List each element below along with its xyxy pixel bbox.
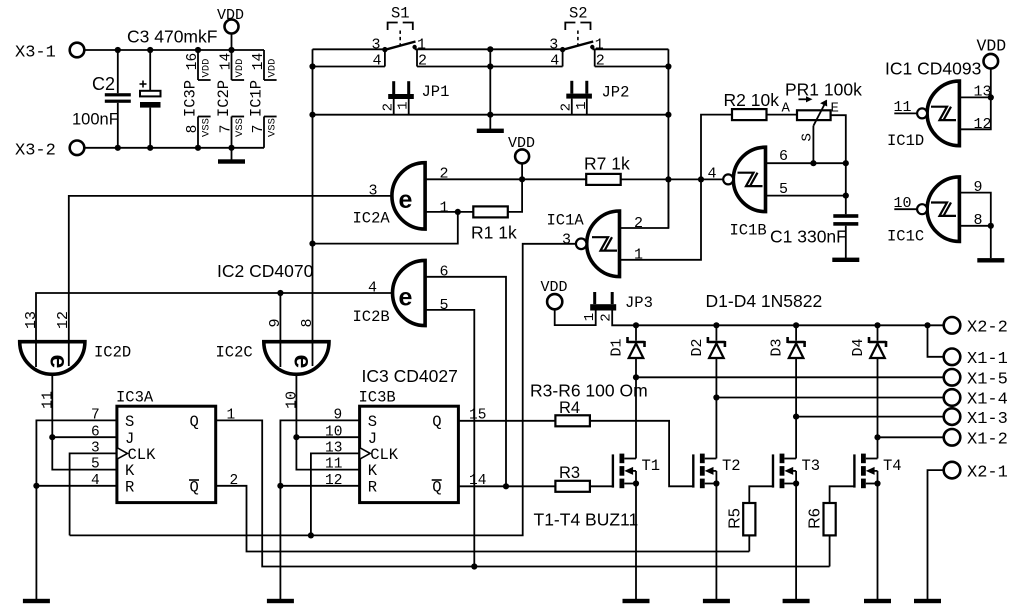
- svg-text:1: 1: [582, 313, 598, 321]
- wire IC2B pin5 down to IC3A Q row: [425, 310, 474, 567]
- wire JP rail y=114.7: [313, 114, 669, 116]
- svg-text:E: E: [831, 101, 839, 117]
- svg-text:1: 1: [634, 247, 643, 264]
- transistor T2: [693, 454, 740, 489]
- trimmer PR1: [782, 80, 863, 142]
- svg-text:11: 11: [325, 457, 342, 473]
- svg-text:IC3 CD4027: IC3 CD4027: [362, 366, 458, 386]
- svg-text:X1-5: X1-5: [967, 371, 1008, 390]
- wire R7 to IC1B pin4: [621, 178, 724, 180]
- svg-text:13: 13: [23, 311, 40, 329]
- svg-text:11: 11: [39, 391, 56, 409]
- svg-text:2: 2: [380, 103, 396, 111]
- resistor R7: [584, 154, 630, 185]
- node dots section E: [988, 94, 994, 229]
- svg-text:R: R: [368, 478, 377, 496]
- connector X2-1: [944, 462, 1008, 482]
- svg-text:R: R: [125, 478, 134, 496]
- svg-text:C2: C2: [92, 74, 115, 94]
- svg-text:IC2A: IC2A: [353, 210, 391, 228]
- svg-text:S1: S1: [391, 5, 410, 23]
- svg-text:5: 5: [440, 297, 449, 314]
- diode D2: [689, 325, 725, 458]
- wire X1-2 row from D4: [878, 436, 945, 438]
- svg-text:R6: R6: [807, 508, 824, 529]
- svg-text:X2-2: X2-2: [967, 319, 1008, 338]
- IC3P power pins: [182, 50, 213, 148]
- svg-text:C1 330nF: C1 330nF: [770, 227, 847, 247]
- wire IC3A Q pin1 to R6 row: [216, 420, 830, 566]
- svg-text:R1 1k: R1 1k: [471, 223, 517, 243]
- svg-text:16: 16: [185, 53, 201, 70]
- node dots top-left rails: [115, 47, 235, 151]
- nand gate IC1D (schmitt): [887, 81, 992, 150]
- svg-text:T1-T4 BUZ11: T1-T4 BUZ11: [534, 510, 639, 530]
- wire IC3B Q- pin14 to R3 to T1 gate: [458, 485, 555, 487]
- svg-text:3: 3: [91, 441, 100, 457]
- jumper JP3: [582, 292, 653, 322]
- svg-text:1: 1: [574, 101, 590, 109]
- wire IC2C pin9 riser: [279, 293, 281, 342]
- svg-text:IC2P: IC2P: [215, 80, 233, 117]
- svg-text:VSS: VSS: [234, 118, 246, 137]
- svg-text:1: 1: [417, 37, 426, 54]
- node dots diode rail: [633, 322, 931, 440]
- wire IC2D pin11 output to IC3A J/K: [52, 374, 117, 469]
- ground below C1: [832, 258, 859, 262]
- power VDD terminal top-left: [217, 7, 244, 50]
- wire T1 source to ground: [635, 484, 637, 600]
- nand gate IC1C (schmitt): [887, 177, 983, 246]
- svg-text:JP1: JP1: [422, 83, 450, 101]
- connector X1-1: [944, 349, 1008, 370]
- xor gate IC2B: [353, 260, 449, 326]
- svg-text:X1-3: X1-3: [967, 410, 1008, 429]
- svg-text:Q: Q: [432, 478, 441, 496]
- connector X2-2: [944, 317, 1008, 338]
- svg-text:JP3: JP3: [625, 294, 653, 312]
- wire T4 source to ground: [877, 484, 879, 600]
- wire R2 left to pin4 bus: [701, 115, 732, 180]
- wire R1 to VDD junction: [508, 179, 522, 212]
- node dots section D: [665, 160, 849, 199]
- wire IC3B J row: [296, 436, 359, 438]
- power VDD right: [977, 37, 1007, 98]
- resistor R2: [724, 90, 780, 120]
- svg-text:R7 1k: R7 1k: [584, 154, 630, 174]
- svg-text:X2-1: X2-1: [967, 463, 1008, 482]
- svg-text:X3-2: X3-2: [15, 142, 56, 161]
- svg-text:R3: R3: [559, 464, 580, 482]
- svg-text:7: 7: [218, 125, 234, 134]
- connector X3-1: [15, 43, 84, 63]
- wire IC1D pin13/12 to VDD: [959, 96, 990, 98]
- svg-text:8: 8: [185, 125, 201, 134]
- wire X2-1 to ground: [928, 470, 945, 599]
- wire IC3A Q- pin2 to R5 row: [216, 486, 750, 552]
- transistor T4: [854, 454, 901, 489]
- svg-text:e: e: [399, 284, 413, 312]
- power VDD above R7: [508, 135, 535, 179]
- xor gate IC2C (rotated, facing down): [216, 318, 330, 409]
- svg-text:X3-1: X3-1: [15, 44, 56, 63]
- wire R6 top to T4 gate: [830, 486, 855, 503]
- svg-text:IC1A: IC1A: [547, 212, 585, 230]
- svg-text:6: 6: [440, 264, 449, 281]
- connector X1-2: [944, 429, 1008, 450]
- svg-text:D4: D4: [850, 338, 867, 356]
- node dots section C: [277, 176, 525, 296]
- svg-text:2: 2: [418, 53, 427, 70]
- svg-text:JP2: JP2: [602, 84, 630, 102]
- svg-text:14: 14: [469, 473, 486, 489]
- capacitor C1: [770, 214, 858, 258]
- svg-text:D3: D3: [768, 338, 785, 356]
- ground below X2-1: [914, 599, 941, 603]
- svg-text:VDD: VDD: [201, 59, 213, 78]
- svg-text:6: 6: [91, 424, 100, 440]
- svg-text:8: 8: [299, 318, 316, 327]
- svg-text:3: 3: [562, 232, 571, 249]
- svg-text:5: 5: [91, 457, 100, 473]
- jumper JP2: [558, 81, 629, 115]
- svg-text:4: 4: [373, 53, 382, 70]
- wire IC2A pin1 feedback to S1 bus: [313, 212, 458, 244]
- svg-text:C3 470mkF: C3 470mkF: [127, 27, 217, 47]
- svg-text:4: 4: [708, 166, 717, 183]
- wire T3 source to ground: [795, 484, 797, 600]
- svg-text:VDD: VDD: [267, 59, 279, 78]
- svg-text:4: 4: [368, 280, 377, 297]
- wire IC2B pin4 row to IC2D pin13: [36, 293, 393, 342]
- wire PR1 wiper to pin6 row: [812, 126, 814, 163]
- wire R2 to PR1: [767, 114, 798, 116]
- wire IC1B pin5 row: [766, 195, 846, 197]
- svg-text:IC1B: IC1B: [730, 222, 767, 240]
- transistor T1: [613, 454, 660, 489]
- svg-text:S: S: [125, 413, 134, 431]
- svg-text:T1: T1: [642, 457, 661, 475]
- svg-text:2: 2: [440, 166, 449, 183]
- svg-text:T2: T2: [722, 457, 741, 475]
- svg-text:7: 7: [251, 125, 267, 134]
- power VDD for JP3: [541, 279, 568, 309]
- wire IC3B S pin9: [280, 420, 359, 485]
- svg-text:12: 12: [974, 116, 992, 133]
- svg-text:3: 3: [372, 37, 381, 54]
- svg-text:10: 10: [325, 424, 342, 440]
- ground below mid bus: [477, 129, 504, 133]
- svg-text:R3-R6 100 Om: R3-R6 100 Om: [530, 381, 648, 401]
- jumper JP1: [380, 81, 449, 115]
- wire R5 bottom to Q- row: [748, 535, 750, 551]
- wire IC1C pin10 stub: [894, 208, 917, 210]
- wire JP3 pin2 to X2-2 rail: [612, 311, 944, 326]
- resistor R4: [555, 399, 590, 426]
- svg-text:10: 10: [283, 391, 300, 409]
- connector X3-2: [15, 141, 84, 161]
- svg-text:VDD: VDD: [234, 59, 246, 78]
- wire X1-4 row from D2: [716, 397, 944, 399]
- ground below IC3B S/R: [267, 599, 294, 603]
- diode D4: [850, 325, 886, 458]
- wire IC3A CLK riser: [70, 453, 117, 535]
- wire T2 source to ground: [715, 484, 717, 600]
- nand gate IC1A (schmitt): [547, 211, 644, 277]
- nand gate IC1B (schmitt): [708, 147, 789, 239]
- ground below IC1C: [977, 258, 1004, 262]
- svg-text:15: 15: [469, 408, 486, 424]
- wire bottom rail VSS: [85, 147, 265, 149]
- svg-text:IC1C: IC1C: [887, 228, 924, 246]
- wire R6 bottom to Q row: [829, 535, 831, 566]
- transistor T3: [773, 454, 820, 489]
- wire IC2A pin1 row: [425, 211, 474, 213]
- svg-text:T3: T3: [802, 457, 821, 475]
- wire VDD to JP3 pin1: [555, 309, 596, 325]
- resistor R5: [726, 503, 755, 535]
- wire IC1A pin1 up to R7 row: [620, 179, 702, 259]
- wire IC3B Q pin15 to R4 to T2 gate: [458, 420, 555, 422]
- capacitor C3 (electrolytic): [127, 27, 217, 148]
- svg-text:S2: S2: [569, 5, 588, 23]
- svg-text:9: 9: [267, 318, 284, 327]
- wire IC2C pin10 output to IC3B J/K: [296, 374, 359, 469]
- wire IC1A pin2 up to R7 row: [620, 179, 669, 228]
- svg-text:1: 1: [440, 199, 449, 216]
- wire IC1D pin11 stub: [894, 112, 917, 114]
- wire IC2B pin6 down to IC3B pin14 row: [425, 277, 506, 487]
- svg-text:Q: Q: [190, 478, 199, 496]
- svg-text:2: 2: [596, 53, 605, 70]
- svg-text:IC3P: IC3P: [182, 80, 200, 117]
- svg-text:PR1 100k: PR1 100k: [785, 80, 862, 100]
- svg-text:Q: Q: [190, 413, 199, 431]
- wire lower rail segments y=66.5: [313, 66, 385, 68]
- ground below IC2P: [218, 148, 245, 164]
- svg-text:2: 2: [634, 215, 643, 232]
- svg-text:D1-D4 1N5822: D1-D4 1N5822: [706, 291, 823, 311]
- svg-text:VSS: VSS: [267, 118, 279, 137]
- wire X1-5 row from D1: [636, 376, 944, 378]
- node dots section H: [33, 434, 509, 570]
- svg-text:T4: T4: [883, 457, 902, 475]
- flip-flop IC3A: [91, 389, 238, 503]
- wire upper rail segments y=49.3: [313, 48, 385, 50]
- svg-text:IC2D: IC2D: [94, 344, 131, 362]
- wire S1 left bus down to IC2C pin8: [312, 49, 314, 341]
- svg-text:IC3A: IC3A: [116, 389, 154, 407]
- svg-text:X1-4: X1-4: [967, 391, 1008, 410]
- diode D3: [768, 325, 804, 458]
- wire IC2A pin3 to IC2D pin12: [69, 196, 392, 342]
- svg-text:VSS: VSS: [201, 118, 213, 137]
- svg-text:Q: Q: [432, 413, 441, 431]
- connector X1-4: [944, 389, 1008, 410]
- wire PR1 right down to C1: [831, 115, 846, 214]
- connector X1-5: [944, 369, 1008, 390]
- svg-text:R5: R5: [726, 508, 743, 529]
- resistor R1: [471, 206, 517, 242]
- svg-text:100nF: 100nF: [72, 111, 119, 129]
- ground below IC3A S/R: [23, 599, 50, 603]
- switch S2: [549, 5, 605, 70]
- svg-text:1: 1: [396, 101, 412, 109]
- wire IC1C pin9/8 to ground: [959, 193, 990, 259]
- svg-text:X1-2: X1-2: [967, 431, 1008, 450]
- svg-text:X1-1: X1-1: [967, 350, 1008, 369]
- wire IC3A R pin4: [36, 486, 117, 599]
- IC2P power pins: [215, 50, 246, 148]
- wire right bus x=668.4 (S2 right to IC1A pin2 row): [667, 49, 669, 228]
- svg-text:D2: D2: [689, 338, 706, 356]
- wire IC1B pin6 row: [766, 162, 846, 164]
- svg-text:e: e: [399, 186, 413, 214]
- connector X1-3: [944, 408, 1008, 428]
- wire IC3A J row: [52, 436, 117, 438]
- wire top rail VDD: [85, 49, 265, 51]
- svg-text:2: 2: [558, 103, 574, 111]
- wire IC3B R pin12: [280, 486, 359, 599]
- svg-text:R2 10k: R2 10k: [724, 90, 780, 110]
- svg-text:IC2B: IC2B: [353, 308, 390, 326]
- flip-flop IC3B: [325, 389, 486, 503]
- svg-text:4: 4: [550, 53, 559, 70]
- wire IC3B CLK pin13: [311, 453, 360, 535]
- wire X1-1 branch: [928, 325, 945, 357]
- svg-text:3: 3: [369, 183, 378, 200]
- svg-text:14: 14: [218, 53, 234, 70]
- xor gate IC2A: [353, 163, 449, 229]
- wire IC2A pin2 row to VDD junction: [425, 178, 586, 180]
- diode D1: [608, 325, 644, 458]
- node dots S/JP rails: [309, 46, 671, 118]
- svg-text:1: 1: [595, 37, 604, 54]
- resistor R6: [807, 503, 836, 535]
- wire R5 top to T3 gate: [749, 486, 773, 503]
- xor gate IC2D (rotated, facing down): [20, 311, 132, 409]
- svg-text:14: 14: [251, 53, 267, 70]
- svg-text:D1: D1: [608, 338, 625, 356]
- switch S1: [372, 5, 428, 70]
- resistor R3: [555, 464, 590, 492]
- wire mid bus x=490.3: [489, 49, 491, 129]
- svg-text:12: 12: [55, 311, 72, 329]
- svg-text:IC1P: IC1P: [248, 80, 266, 117]
- wire X1-3 row from D3: [796, 416, 944, 418]
- IC1P power pins: [248, 50, 279, 148]
- svg-text:IC2 CD4070: IC2 CD4070: [217, 261, 314, 281]
- capacitor C2: [72, 50, 131, 148]
- svg-text:3: 3: [549, 37, 558, 54]
- wire IC3A S pin7: [36, 420, 117, 485]
- svg-text:R4: R4: [559, 399, 580, 417]
- svg-text:IC3B: IC3B: [359, 389, 396, 407]
- svg-text:IC1 CD4093: IC1 CD4093: [885, 59, 981, 79]
- svg-text:IC1D: IC1D: [887, 132, 924, 150]
- svg-text:IC2C: IC2C: [216, 344, 253, 362]
- svg-text:S: S: [368, 413, 377, 431]
- wire IC1A pin3 output to CLK bus: [70, 244, 577, 536]
